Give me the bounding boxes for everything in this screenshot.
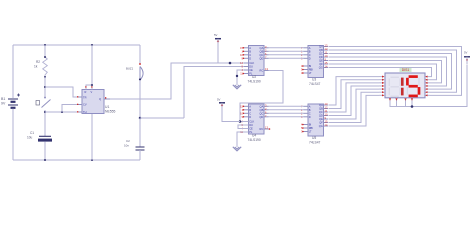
U5 left control pin stubs xyxy=(304,124,309,126)
svg-text:11: 11 xyxy=(325,51,328,55)
op-amp U1 555 timer body xyxy=(82,90,104,114)
svg-text:TR: TR xyxy=(83,96,87,100)
svg-text:QF: QF xyxy=(319,62,323,66)
U3 pin names xyxy=(309,45,324,76)
ground GND2 xyxy=(237,132,249,147)
U1 pin name marks xyxy=(83,90,101,114)
svg-text:U4: U4 xyxy=(252,134,256,138)
node 555-GND junction xyxy=(91,159,93,161)
svg-text:U2: U2 xyxy=(252,75,256,79)
U2 pin numbers xyxy=(240,46,243,76)
svg-text:V: V xyxy=(91,90,93,94)
wire 555 output to U2 clock xyxy=(110,63,249,99)
capacitor C1 xyxy=(39,135,51,137)
counter U2 74LS190 body xyxy=(249,46,265,76)
wire U3 outputs to display right pins xyxy=(329,47,462,96)
svg-text:C: C xyxy=(249,53,251,57)
wire node A to 555 pin xyxy=(45,87,82,97)
display left digit ghost segments xyxy=(391,76,399,78)
display right digit 5 segments xyxy=(409,75,418,78)
wire R1 top lead xyxy=(44,45,46,57)
svg-text:74LS190: 74LS190 xyxy=(248,80,261,84)
svg-text:A: A xyxy=(309,46,311,50)
node B junction xyxy=(44,111,46,113)
svg-text:B: B xyxy=(309,49,311,53)
svg-text:QB: QB xyxy=(319,48,323,52)
svg-text:RBI: RBI xyxy=(309,126,314,130)
svg-text:QC: QC xyxy=(259,111,263,115)
U2 left data pin stubs xyxy=(244,47,249,49)
U4 pin names xyxy=(249,104,263,134)
node P1 junction xyxy=(229,62,232,65)
svg-text:5V: 5V xyxy=(464,51,468,55)
U5 pin names xyxy=(309,103,324,134)
svg-text:CE: CE xyxy=(249,68,253,72)
node C1-bottom junction xyxy=(44,159,46,161)
svg-text:12: 12 xyxy=(325,106,328,110)
svg-text:BUZ1: BUZ1 xyxy=(126,66,134,70)
node top-555 junction xyxy=(91,44,93,46)
wire C2 to bottom rail xyxy=(139,150,141,160)
svg-text:R: R xyxy=(85,90,87,94)
svg-text:A: A xyxy=(309,104,311,108)
svg-text:TH: TH xyxy=(83,110,87,114)
battery B1 xyxy=(8,99,18,108)
svg-text:Q: Q xyxy=(99,97,101,101)
svg-text:QC: QC xyxy=(319,52,323,56)
svg-text:3: 3 xyxy=(265,45,267,49)
node U4 clock junction xyxy=(239,120,242,123)
U3 left input pin stubs xyxy=(304,47,309,49)
wire C1 to bottom rail xyxy=(44,142,46,160)
wire 555 ground rail xyxy=(91,114,93,161)
U4 carry stub xyxy=(264,128,269,130)
display DIS1 body xyxy=(385,73,425,98)
power +5V P3 xyxy=(464,56,470,58)
wire buzzer to node D xyxy=(139,80,141,118)
svg-text:6: 6 xyxy=(265,111,267,115)
U4 left control pin stubs xyxy=(244,121,249,123)
node common junction xyxy=(411,105,414,108)
svg-text:QA: QA xyxy=(319,103,323,107)
display right digit ghost segments xyxy=(409,76,418,78)
display DIS1 title xyxy=(400,67,412,72)
node A trigger junction xyxy=(44,86,46,88)
svg-text:BI: BI xyxy=(309,123,312,127)
svg-text:QA: QA xyxy=(319,45,323,49)
U5 right output pin stubs xyxy=(324,104,329,106)
svg-text:9: 9 xyxy=(325,116,327,120)
svg-text:9: 9 xyxy=(325,58,327,62)
svg-text:B: B xyxy=(249,108,251,112)
U1 left pin stubs xyxy=(77,96,82,98)
svg-text:C2: C2 xyxy=(126,139,130,143)
svg-text:BI: BI xyxy=(309,64,312,68)
U2 pin names xyxy=(249,46,263,76)
node D junction xyxy=(139,117,142,120)
svg-text:1k: 1k xyxy=(34,65,38,69)
svg-text:CV: CV xyxy=(83,103,87,107)
capacitor C2 xyxy=(136,146,145,148)
svg-text:LT: LT xyxy=(309,130,312,134)
display left digit 1 segments xyxy=(401,78,404,86)
wire display common to power xyxy=(390,65,468,107)
svg-text:7: 7 xyxy=(265,114,267,118)
svg-text:RC: RC xyxy=(260,69,264,73)
svg-text:QG: QG xyxy=(319,66,323,70)
node top-R1 junction xyxy=(44,44,46,46)
svg-text:QF: QF xyxy=(319,121,323,125)
U5 pin numbers xyxy=(301,104,303,133)
display left pin stubs xyxy=(379,76,385,78)
svg-text:5V: 5V xyxy=(214,33,218,37)
svg-text:CLK: CLK xyxy=(249,61,254,65)
svg-text:CLK: CLK xyxy=(249,120,254,124)
svg-text:10u: 10u xyxy=(27,136,33,140)
wire node D to U2 pin xyxy=(184,67,249,119)
svg-text:14: 14 xyxy=(325,123,328,127)
circuit schematic: 555 timer driving 74LS190 counters, 74LS47 decoders, dual 7-segment display xyxy=(0,0,474,189)
svg-text:QC: QC xyxy=(259,53,263,57)
svg-text:10: 10 xyxy=(325,113,328,117)
svg-text:2: 2 xyxy=(265,49,267,53)
svg-text:6: 6 xyxy=(265,52,267,56)
svg-text:B1: B1 xyxy=(1,97,5,101)
svg-text:QC: QC xyxy=(319,110,323,114)
svg-text:14: 14 xyxy=(325,65,328,69)
svg-text:7: 7 xyxy=(265,56,267,60)
wire U5 outputs to display left pins xyxy=(329,77,380,105)
wire switch to node B xyxy=(44,110,46,136)
svg-text:5V: 5V xyxy=(217,98,221,102)
svg-text:QG: QG xyxy=(319,124,323,128)
svg-text:74LS47: 74LS47 xyxy=(309,82,321,86)
wire node D feedback xyxy=(140,117,184,119)
svg-text:QA: QA xyxy=(260,104,264,108)
wire U4 to U5 BCD bus xyxy=(269,105,304,107)
svg-text:B: B xyxy=(309,108,311,112)
U2 NC pin stub xyxy=(244,73,249,75)
svg-text:D: D xyxy=(309,115,311,119)
svg-text:QD: QD xyxy=(319,114,323,118)
U2 right output pin stubs xyxy=(264,47,269,49)
U2 carry pin stub xyxy=(264,70,269,72)
svg-text:DIS1: DIS1 xyxy=(402,68,410,72)
svg-text:15: 15 xyxy=(325,120,328,124)
wire bottom rail xyxy=(13,159,140,161)
wire left rail lower xyxy=(12,109,14,160)
U3 pin numbers xyxy=(301,46,303,75)
svg-text:C: C xyxy=(309,111,311,115)
svg-text:74LS47: 74LS47 xyxy=(309,141,321,145)
svg-text:QB: QB xyxy=(260,49,264,53)
svg-text:13: 13 xyxy=(325,44,328,48)
svg-text:QD: QD xyxy=(319,55,323,59)
svg-text:D: D xyxy=(249,115,251,119)
svg-text:QA: QA xyxy=(260,46,264,50)
svg-text:LT: LT xyxy=(309,71,312,75)
display bottom pin stubs xyxy=(389,98,391,107)
svg-text:R2: R2 xyxy=(36,60,40,64)
wire R1 bottom lead xyxy=(44,77,46,87)
svg-text:U5: U5 xyxy=(312,136,316,140)
wire left rail upper xyxy=(12,45,14,98)
wire top rail xyxy=(13,44,140,46)
resistor R1 xyxy=(43,57,48,77)
U3 left control pin stubs xyxy=(304,65,309,67)
U3 right output pin stubs xyxy=(324,46,329,48)
svg-text:C: C xyxy=(249,111,251,115)
U4 jog wire xyxy=(238,125,249,129)
svg-text:DU: DU xyxy=(249,123,253,127)
svg-text:10: 10 xyxy=(325,54,328,58)
ground GND1 xyxy=(237,70,249,85)
svg-text:D: D xyxy=(249,56,251,60)
wire U2 to U3 BCD bus xyxy=(269,47,304,49)
svg-text:QE: QE xyxy=(319,59,323,63)
svg-text:74LS190: 74LS190 xyxy=(248,138,261,142)
switch SW1 xyxy=(44,88,46,97)
svg-text:2: 2 xyxy=(265,107,267,111)
U1 right output pin xyxy=(104,98,110,100)
svg-text:15: 15 xyxy=(325,61,328,65)
U4 right output pin stubs xyxy=(264,105,269,107)
svg-text:QE: QE xyxy=(319,117,323,121)
svg-text:10n: 10n xyxy=(124,144,129,148)
buzzer LS1 xyxy=(139,45,141,65)
svg-text:12: 12 xyxy=(325,47,328,51)
svg-text:QB: QB xyxy=(319,107,323,111)
decoder U3 74LS47 body xyxy=(308,46,324,78)
svg-text:NE555: NE555 xyxy=(105,109,115,113)
svg-text:QB: QB xyxy=(260,108,264,112)
svg-text:C1: C1 xyxy=(30,131,34,135)
svg-text:QD: QD xyxy=(259,115,263,119)
svg-text:RBI: RBI xyxy=(309,68,314,72)
U4 pin numbers xyxy=(240,104,243,134)
wire U2 carry to U4 clock xyxy=(240,71,283,122)
switch SW1 actuator label xyxy=(36,101,40,106)
U1 top pins xyxy=(91,45,93,90)
svg-text:A: A xyxy=(249,46,251,50)
wire node D to C2 xyxy=(139,118,141,147)
U2 left control pin stubs xyxy=(244,62,249,64)
svg-text:D: D xyxy=(309,56,311,60)
wire node B to 555 pins xyxy=(45,111,62,113)
U4 carry pin stub xyxy=(264,128,269,130)
svg-text:11: 11 xyxy=(325,109,328,113)
svg-text:13: 13 xyxy=(325,102,328,106)
display right pin stubs xyxy=(425,76,430,78)
svg-text:C: C xyxy=(309,53,311,57)
decoder U5 74LS47 body xyxy=(308,104,324,136)
svg-text:QD: QD xyxy=(259,56,263,60)
svg-text:U3: U3 xyxy=(312,78,316,82)
svg-text:A: A xyxy=(249,104,251,108)
svg-text:3: 3 xyxy=(265,104,267,108)
svg-text:RC: RC xyxy=(260,127,264,131)
svg-text:CE: CE xyxy=(249,127,253,131)
counter U4 74LS190 body xyxy=(249,104,265,134)
svg-text:B: B xyxy=(249,49,251,53)
U5 left input pin stubs xyxy=(304,105,309,107)
svg-text:9V: 9V xyxy=(1,102,6,106)
svg-text:DU: DU xyxy=(249,65,253,69)
U4 left data pin stubs xyxy=(244,105,249,107)
